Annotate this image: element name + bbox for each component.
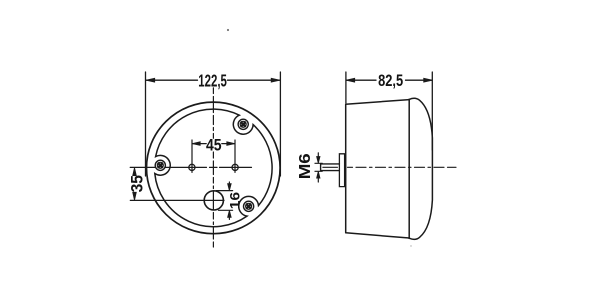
lens flange line: [408, 99, 410, 238]
mounting hole left: [189, 164, 195, 170]
screw top-right: [238, 119, 248, 129]
svg-text:16: 16: [227, 191, 242, 209]
dimension 122,5 left arrow: [146, 78, 155, 82]
dimension 122,5 line: [146, 79, 280, 81]
dimension 82,5 right extension line: [431, 72, 433, 150]
scan speck bottom: [410, 245, 411, 246]
screw bottom-right: [244, 201, 254, 211]
svg-text:35: 35: [128, 175, 146, 192]
M6 diameter extension ticks: [315, 163, 322, 171]
mounting plate: [339, 154, 344, 187]
lens dome: [409, 98, 432, 239]
dimension 45 line: [192, 143, 235, 145]
dimension 82,5 right arrow: [424, 78, 433, 82]
bottom hole center line (35 reference): [130, 199, 224, 201]
dimension 16 arrows: [228, 182, 230, 219]
dimension 82,5 left extension line: [345, 72, 347, 103]
dimension 82,5 line: [346, 79, 432, 81]
svg-text:122,5: 122,5: [198, 70, 227, 90]
dimension 16 top extension line: [216, 190, 233, 192]
dimension 82,5 left arrow: [346, 78, 355, 82]
mounting hole right: [232, 164, 238, 170]
dimension 45 right arrow: [227, 142, 235, 146]
dimension 45 right extension line through right hole: [234, 140, 236, 172]
lamp housing side view outline: [346, 100, 410, 238]
dimension 16 bottom extension line: [219, 209, 233, 211]
dimension 122,5 left extension line: [145, 72, 147, 176]
dimension 45 left arrow: [192, 142, 200, 146]
bolt thread centerline dash: [323, 166, 338, 168]
side view horizontal centerline: [348, 166, 457, 168]
M6 bolt shaft: [321, 164, 340, 171]
horizontal centerline of lamp: [130, 166, 251, 168]
scan speck top: [227, 29, 229, 31]
screw left: [155, 160, 165, 170]
bottom hole: [204, 191, 223, 210]
dimension 45 left extension line through left hole: [191, 140, 193, 172]
inner contour with three screw tabs: [155, 109, 272, 227]
svg-text:45: 45: [206, 136, 222, 154]
outer circle of lamp body: [147, 102, 281, 234]
vertical centerline of lamp: [212, 88, 214, 247]
svg-text:M6: M6: [297, 153, 314, 179]
dimension 122,5 right arrow: [271, 78, 280, 82]
dimension 122,5 right extension line: [279, 72, 281, 176]
dimension 35 vertical line and arrows: [133, 168, 137, 176]
svg-text:82,5: 82,5: [378, 71, 403, 90]
M6 arrows: [317, 153, 319, 182]
